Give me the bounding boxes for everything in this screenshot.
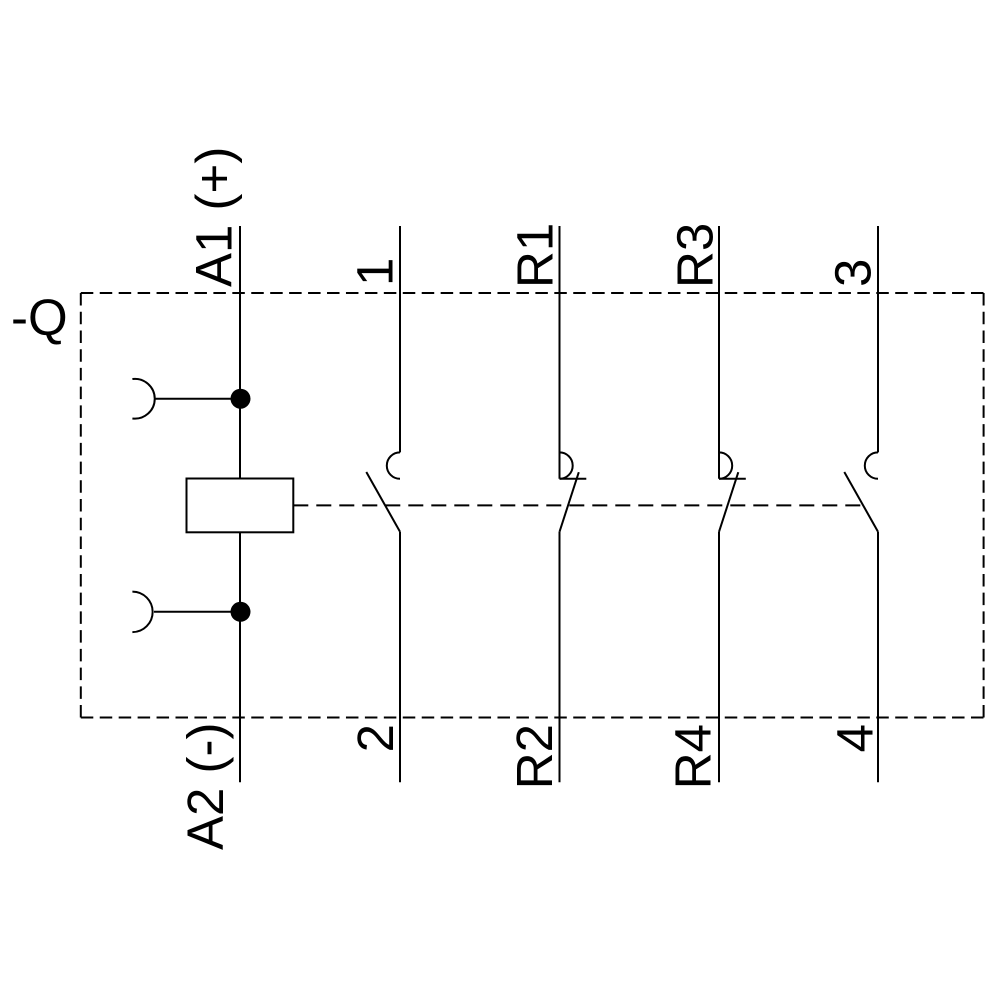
svg-text:1: 1 <box>347 258 404 286</box>
contact R3-R4 fixed arc <box>719 452 732 478</box>
plug hook A1 <box>132 379 154 419</box>
coil K1 <box>187 479 294 533</box>
contact 3-4 moving blade <box>844 472 878 532</box>
contact 3-4 fixed arc <box>865 452 878 478</box>
wire manual-link A1 <box>154 398 240 400</box>
plug hook A2 <box>132 592 152 633</box>
svg-text:R1: R1 <box>507 223 564 288</box>
contact R3-R4 fixed wire <box>718 226 720 479</box>
svg-text:R4: R4 <box>665 724 722 789</box>
svg-text:4: 4 <box>826 724 883 752</box>
wire A1 terminal to coil <box>239 226 241 479</box>
contact 1-2 moving blade <box>366 472 400 532</box>
contact R3-R4 bottom wire <box>718 532 720 783</box>
svg-text:A1 (+): A1 (+) <box>186 147 243 287</box>
contact R1-R2 fixed wire <box>559 226 561 479</box>
contact R1-R2 moving blade <box>560 472 579 532</box>
device boundary dashed box -Q <box>81 293 984 718</box>
contact 3-4 fixed wire <box>877 226 879 452</box>
mechanical linkage dashed <box>293 504 861 506</box>
svg-text:2: 2 <box>347 724 404 752</box>
contact 1-2 fixed arc <box>387 452 400 478</box>
svg-text:R3: R3 <box>666 223 723 288</box>
contact R1-R2 fixed arc <box>560 452 573 478</box>
junction node A2 <box>231 602 251 622</box>
contact R3-R4 moving blade <box>719 472 738 532</box>
svg-text:-Q: -Q <box>11 289 68 346</box>
svg-text:A2 (-): A2 (-) <box>177 723 234 851</box>
wire coil to A2 terminal <box>239 532 241 782</box>
svg-text:3: 3 <box>825 259 882 287</box>
contact 1-2 fixed wire <box>399 226 401 452</box>
wire manual-link A2 <box>154 611 240 613</box>
contact R1-R2 seat bar <box>560 478 587 480</box>
junction node A1 <box>231 389 251 409</box>
contact R1-R2 bottom wire <box>559 532 561 783</box>
contact R3-R4 seat bar <box>719 478 746 480</box>
svg-text:R2: R2 <box>506 724 563 789</box>
contact 3-4 bottom wire <box>877 532 879 783</box>
contact 1-2 bottom wire <box>399 532 401 783</box>
